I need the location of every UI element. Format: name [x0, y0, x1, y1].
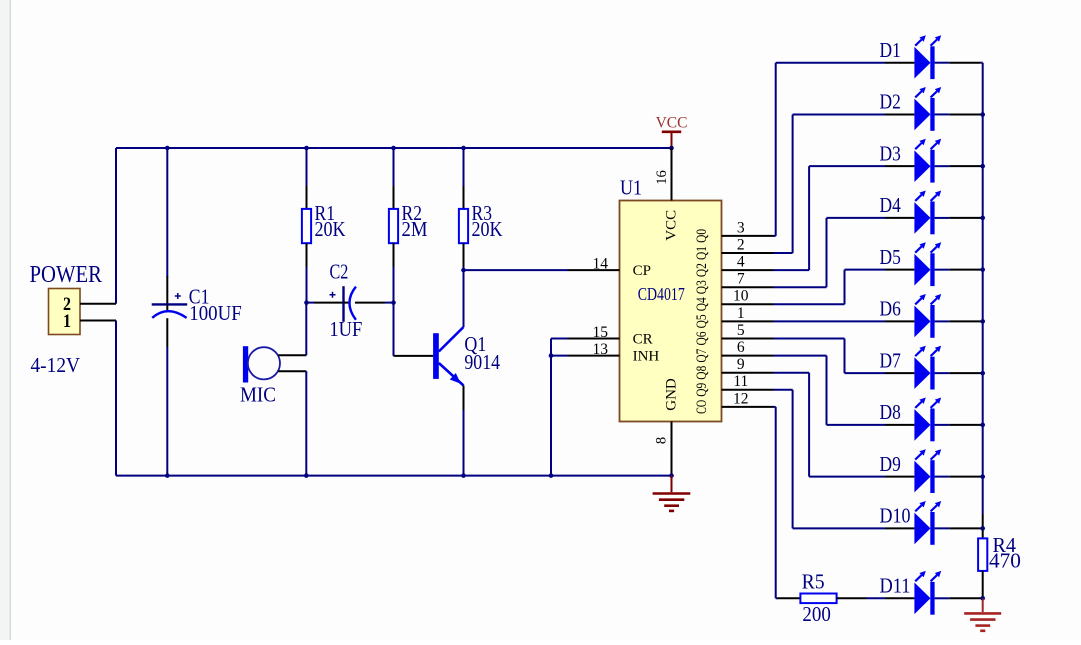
wire cathode bus vertical [982, 63, 984, 539]
LED D5 [880, 242, 983, 286]
svg-text:470: 470 [989, 549, 1021, 573]
wire Q6 to D7 [774, 339, 886, 374]
power VCC symbol [656, 115, 688, 149]
pin 10 Q4 of U1 [722, 288, 774, 305]
wire CO route to R5 [776, 597, 801, 599]
ground symbol bottom right [964, 598, 1001, 631]
svg-text:Q7: Q7 [694, 348, 710, 362]
svg-text:Q6: Q6 [694, 331, 710, 345]
wire C1 top [166, 148, 168, 277]
junction bus D2 [980, 112, 985, 117]
svg-text:Q2: Q2 [694, 263, 710, 277]
svg-text:1: 1 [737, 305, 745, 322]
svg-text:16: 16 [654, 170, 670, 185]
svg-text:9: 9 [737, 356, 745, 373]
pin 16 VCC of U1 [654, 148, 672, 201]
pin MIC lower [278, 370, 306, 372]
svg-text:C2: C2 [330, 259, 349, 283]
svg-text:D10: D10 [880, 504, 911, 528]
wire Q2 to D3 [774, 166, 886, 270]
wire Q0 to D1 [774, 63, 886, 236]
LED D4 [880, 191, 983, 235]
pin 8 GND of U1 [654, 422, 672, 476]
resistor R5 200 [800, 570, 836, 626]
wire Q3 to D4 [774, 218, 886, 287]
LED D3 [880, 139, 983, 183]
wire R1 bottom to C2 node [306, 243, 308, 302]
wire R1 top [306, 148, 308, 209]
wire R3 top [463, 148, 465, 209]
pin MIC upper [278, 354, 306, 356]
LED D8 [880, 398, 983, 442]
svg-text:4-12V: 4-12V [31, 353, 81, 377]
svg-text:20K: 20K [472, 217, 503, 241]
svg-text:R5: R5 [802, 570, 825, 594]
pin 12 CO of U1 [722, 390, 774, 407]
svg-text:Q9: Q9 [694, 383, 710, 397]
junction bus D4 [980, 216, 985, 221]
pin 7 Q3 of U1 [722, 271, 774, 288]
svg-text:10: 10 [733, 288, 749, 305]
junction bus D6 [980, 319, 985, 324]
LED D11 [880, 571, 983, 615]
svg-text:D1: D1 [880, 38, 901, 62]
svg-text:20K: 20K [315, 217, 346, 241]
resistor R4 470 [978, 533, 1021, 573]
pin 4 Q2 of U1 [722, 254, 774, 271]
svg-text:D2: D2 [880, 90, 901, 114]
svg-text:2: 2 [737, 236, 745, 253]
resistor R1 20K [302, 201, 346, 243]
junction bus D5 [980, 267, 985, 272]
wire top power rail [116, 147, 672, 149]
LED D7 [880, 346, 983, 390]
pin 2 wire of connector [80, 303, 116, 305]
op-amp-style part U1 CD4017 body [620, 176, 722, 422]
svg-text:U1: U1 [620, 176, 642, 200]
svg-text:4: 4 [737, 254, 745, 271]
junction Q1 emitter ground rail [461, 473, 466, 478]
wire R5 to D11 anode [837, 597, 885, 599]
svg-text:11: 11 [733, 373, 748, 390]
capacitor C2 1UF [329, 259, 362, 341]
wire Q8 to D9 [774, 373, 886, 477]
wire R2 top [393, 148, 395, 209]
junction MIC ground rail [304, 473, 309, 478]
microphone MIC [240, 346, 280, 406]
svg-text:D11: D11 [880, 574, 911, 598]
junction bus D9 [980, 474, 985, 479]
label POWER [30, 261, 103, 288]
svg-text:CO: CO [694, 400, 710, 414]
resistor R3 20K [459, 201, 503, 243]
wire Q4 to D5 [774, 270, 886, 305]
svg-text:1: 1 [63, 312, 71, 332]
svg-text:9014: 9014 [464, 350, 500, 374]
svg-text:VCC: VCC [656, 115, 688, 132]
svg-text:D3: D3 [880, 141, 901, 165]
svg-text:D4: D4 [880, 193, 901, 217]
svg-text:D8: D8 [880, 400, 901, 424]
svg-text:14: 14 [593, 255, 609, 272]
ground symbol under U1 [653, 476, 691, 511]
LED D2 [880, 87, 983, 131]
LED D6 [880, 294, 983, 338]
wire MIC upper to node R1C2 [305, 303, 307, 356]
svg-text:Q5: Q5 [694, 314, 710, 328]
svg-text:GND: GND [664, 378, 680, 411]
svg-text:12: 12 [733, 390, 749, 407]
pin 5 Q6 of U1 [722, 322, 774, 339]
junction R4-D11 ground node [980, 596, 985, 601]
junction R2 top rail [391, 146, 396, 151]
svg-text:5: 5 [737, 322, 745, 339]
svg-text:Q0: Q0 [694, 229, 710, 243]
wire CP from collector node to IC [464, 269, 568, 271]
svg-text:D6: D6 [880, 297, 901, 321]
wire Q7 to D8 [774, 356, 886, 425]
pin 3 Q0 of U1 [722, 219, 774, 236]
junction INH node [549, 353, 554, 358]
wire Q9 to D10 [774, 390, 886, 529]
svg-text:D5: D5 [880, 245, 901, 269]
svg-text:INH: INH [633, 349, 660, 365]
junction bus D8 [980, 423, 985, 428]
pin 1 wire of connector [80, 320, 116, 322]
svg-text:MIC: MIC [240, 383, 276, 407]
svg-text:Q1: Q1 [694, 246, 710, 260]
junction VCC top rail [669, 146, 674, 151]
wire MIC lower to ground rail [305, 371, 307, 475]
svg-text:7: 7 [737, 271, 745, 288]
wire left vertical from power pin 1 down to bottom rail [115, 321, 117, 476]
wire Q5 straight to D6 [774, 320, 886, 322]
svg-text:CR: CR [633, 332, 653, 348]
svg-text:D9: D9 [880, 452, 901, 476]
junction R1 top rail [304, 146, 309, 151]
wire left vertical from power pin 2 up to top rail [115, 148, 117, 304]
wire Q1 to D2 [774, 114, 886, 253]
pin 13 INH of U1 [568, 341, 620, 358]
junction CR-INH ground rail [549, 473, 554, 478]
wire CO to D11 via R5 [774, 407, 776, 598]
junction C1 bottom rail [165, 473, 170, 478]
wire Q1 emitter to ground rail [463, 386, 465, 476]
svg-text:13: 13 [593, 341, 609, 358]
svg-text:15: 15 [593, 324, 609, 341]
svg-text:6: 6 [737, 339, 745, 356]
wire INH from vertical [551, 355, 568, 357]
pin 15 CR of U1 [568, 324, 620, 341]
LED D1 [880, 35, 983, 79]
wire CR-INH vertical to ground rail [550, 339, 552, 476]
junction node R1-C2-MIC [304, 300, 309, 305]
wire C2 right plate to R2 column [355, 302, 394, 304]
connector J POWER 2-pin header [49, 289, 81, 335]
junction R3 top rail [461, 146, 466, 151]
junction bus D3 [980, 164, 985, 169]
wire R3 bottom to collector node [463, 243, 465, 327]
pin 6 Q7 of U1 [722, 339, 774, 356]
svg-text:Q4: Q4 [694, 297, 710, 311]
LED D10 [880, 501, 983, 545]
junction C1 top rail [165, 146, 170, 151]
wire node R1C2 to C2 left plate [307, 302, 344, 304]
svg-text:Q3: Q3 [694, 280, 710, 294]
pin Q1 base wire [394, 355, 434, 357]
svg-text:1UF: 1UF [329, 317, 362, 341]
svg-text:Q8: Q8 [694, 366, 710, 380]
svg-text:POWER: POWER [30, 261, 103, 288]
pin 2 Q1 of U1 [722, 236, 774, 253]
svg-text:VCC: VCC [664, 210, 680, 241]
junction pin8 ground rail [669, 473, 674, 478]
wire C1 bottom [166, 347, 168, 476]
pin 14 CP of U1 [568, 255, 620, 272]
pin 11 Q9 of U1 [722, 373, 774, 390]
wire R4 to ground node [982, 571, 984, 598]
svg-text:100UF: 100UF [189, 301, 241, 325]
transistor Q1 9014 [433, 327, 500, 386]
svg-text:8: 8 [654, 437, 670, 444]
junction bus D7 [980, 371, 985, 376]
pin 1 Q5 of U1 [722, 305, 774, 322]
svg-text:3: 3 [737, 219, 745, 236]
wire CR from vertical [551, 338, 568, 340]
svg-text:D7: D7 [880, 348, 901, 372]
wire bottom ground rail [116, 475, 672, 477]
junction bus D10 [980, 526, 985, 531]
svg-text:CP: CP [633, 263, 651, 279]
wire R2 bottom to Q1 base node [393, 243, 395, 356]
svg-text:CD4017: CD4017 [638, 284, 685, 304]
resistor R2 2M [389, 201, 428, 243]
svg-text:200: 200 [802, 602, 830, 626]
capacitor C1 100UF [152, 276, 242, 347]
svg-text:2M: 2M [402, 217, 428, 241]
pin 9 Q8 of U1 [722, 356, 774, 373]
junction node C2-R2 [391, 300, 396, 305]
label 4-12V [31, 353, 81, 377]
junction CP on R3 column [461, 268, 466, 273]
LED D9 [880, 449, 983, 493]
